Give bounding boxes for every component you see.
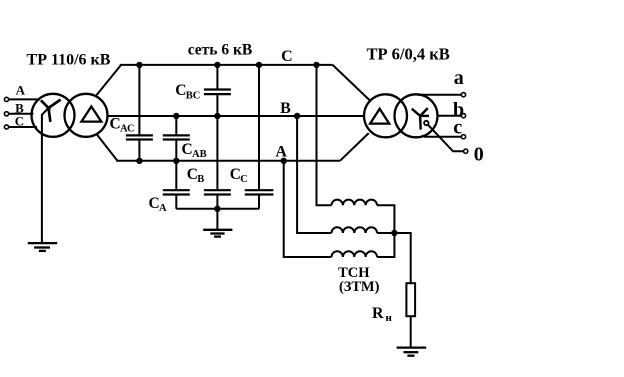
resistor RH body [406,283,415,316]
transformer T1 star (Y) symbol [41,100,61,122]
terminal C (input) [4,125,8,129]
wire node to middle ground [216,209,218,230]
svg-text:А: А [275,143,287,160]
svg-text:ТР 110/6 кВ: ТР 110/6 кВ [27,51,111,68]
node bus C x217 [214,62,220,68]
wire neutral to terminal 0 [428,125,464,152]
wire T1 neutral to ground [42,108,49,243]
svg-text:н: н [386,312,393,324]
inductor L2 (TCH winding, phase B) [332,227,378,233]
wire L2 right to junction [377,232,394,234]
wire diagonal T1 to bus C [96,65,120,95]
transformer T1 delta symbol [81,107,101,122]
svg-text:А: А [159,203,167,214]
svg-text:ТР 6/0,4 кВ: ТР 6/0,4 кВ [366,45,449,64]
wire phase C down to reactor L1 [317,65,332,205]
svg-text:сеть 6 кВ: сеть 6 кВ [188,42,253,59]
T2 neutral terminal circle [424,121,428,125]
wire resistor RH to ground [410,316,412,347]
node bus A x284 [281,158,287,164]
svg-text:С: С [240,174,248,185]
wire input A [9,98,40,100]
wire diagonal T1 to bus A [96,134,117,161]
svg-text:c: c [453,116,462,138]
capacitor CB plates [204,190,231,194]
capacitor CAC wire top [138,65,140,134]
transformer T1 (ТР 110/6 кВ) primary winding circle [32,94,75,137]
ground left (T1 neutral) [28,243,57,251]
svg-text:R: R [372,305,384,322]
svg-text:АС: АС [120,124,135,135]
capacitor CA plates [163,190,190,194]
capacitor CC wire bottom [258,196,260,209]
transformer T2 delta symbol [370,109,389,124]
capacitor CBC wire top [216,65,218,89]
wire input C [9,126,37,128]
node bus B x217 [214,113,220,119]
svg-text:ВС: ВС [186,90,201,101]
terminal A (input) [4,97,8,101]
svg-text:А: А [16,82,26,97]
node bus B x297 [294,113,300,119]
transformer T2 (ТР 6/0,4 кВ) primary winding circle [364,94,407,137]
svg-text:В: В [280,100,291,117]
node bus A x139 [136,158,142,164]
terminal c [461,135,465,139]
capacitor CA wire bottom [175,196,177,209]
bus C (сеть 6 кВ top line) [120,64,333,66]
node capacitor bank ground [214,206,220,212]
wire diagonal bus A to T2 [340,133,369,161]
inductor L3 (TCH winding, phase A) [332,251,378,257]
svg-text:a: a [454,67,464,89]
capacitor CC plates [245,190,274,194]
capacitor CA wire top (from bus A) [175,161,177,189]
svg-text:В: В [197,174,204,185]
bus A (bottom line) [116,160,340,162]
wire phase A down to reactor L3 [284,161,332,257]
inductor L1 (TCH winding, phase C) [332,200,378,206]
junction dots [136,62,397,237]
capacitor CBC wire bottom [216,95,218,116]
svg-text:(ЗТМ): (ЗТМ) [339,279,380,295]
node reactor common [391,230,397,236]
capacitor CAB wire bottom [175,141,177,161]
capacitor CAB plates [163,135,190,139]
wire output a [418,94,461,96]
node bus B x176 [173,113,179,119]
transformer T2 secondary winding circle [395,94,438,137]
wire output b [438,115,462,117]
wire phase B down to reactor L2 [297,116,331,233]
capacitor CAB wire top [175,116,177,134]
label CA [149,195,168,214]
node bus A x176 [173,158,179,164]
capacitor CBC plates [204,90,231,95]
wire diagonal bus C to T2 [333,65,371,101]
svg-text:С: С [281,48,293,65]
label CB [187,166,205,185]
wire L3 right to junction [377,233,394,257]
ground middle (capacitor bank) [203,230,232,237]
node bus C x316 [313,62,319,68]
capacitor CB wire bottom [216,196,218,209]
transformer T2 star (Y) symbol [412,108,429,130]
node: capacitor common bottom wire [176,208,259,210]
wire L1 right to junction [377,205,394,233]
label CC [230,166,248,185]
terminal a [461,93,465,97]
wire input B [9,113,34,115]
node bus C x139 [136,62,142,68]
label CBC [175,82,200,101]
bus B (middle line) [107,115,364,117]
node bus C x259 [256,62,262,68]
label RH [372,305,393,324]
wire junction to resistor RH [394,233,410,283]
capacitor CC wire top (from bus C crossing buses B and A) [258,65,260,189]
transformer T1 secondary winding circle [65,94,108,137]
label CAC [110,116,135,135]
label CAB [182,141,207,160]
svg-text:АВ: АВ [192,149,207,160]
ground right (RH) [397,348,427,356]
terminal B (input) [4,112,8,116]
svg-text:0: 0 [474,144,484,166]
terminal b [461,114,465,118]
capacitor CAC wire bottom [138,141,140,161]
wire output c [424,136,461,138]
terminal 0 [464,149,468,153]
capacitor CB wire top (from bus B crossing bus A) [216,116,218,189]
capacitor CAC plates [126,135,153,139]
